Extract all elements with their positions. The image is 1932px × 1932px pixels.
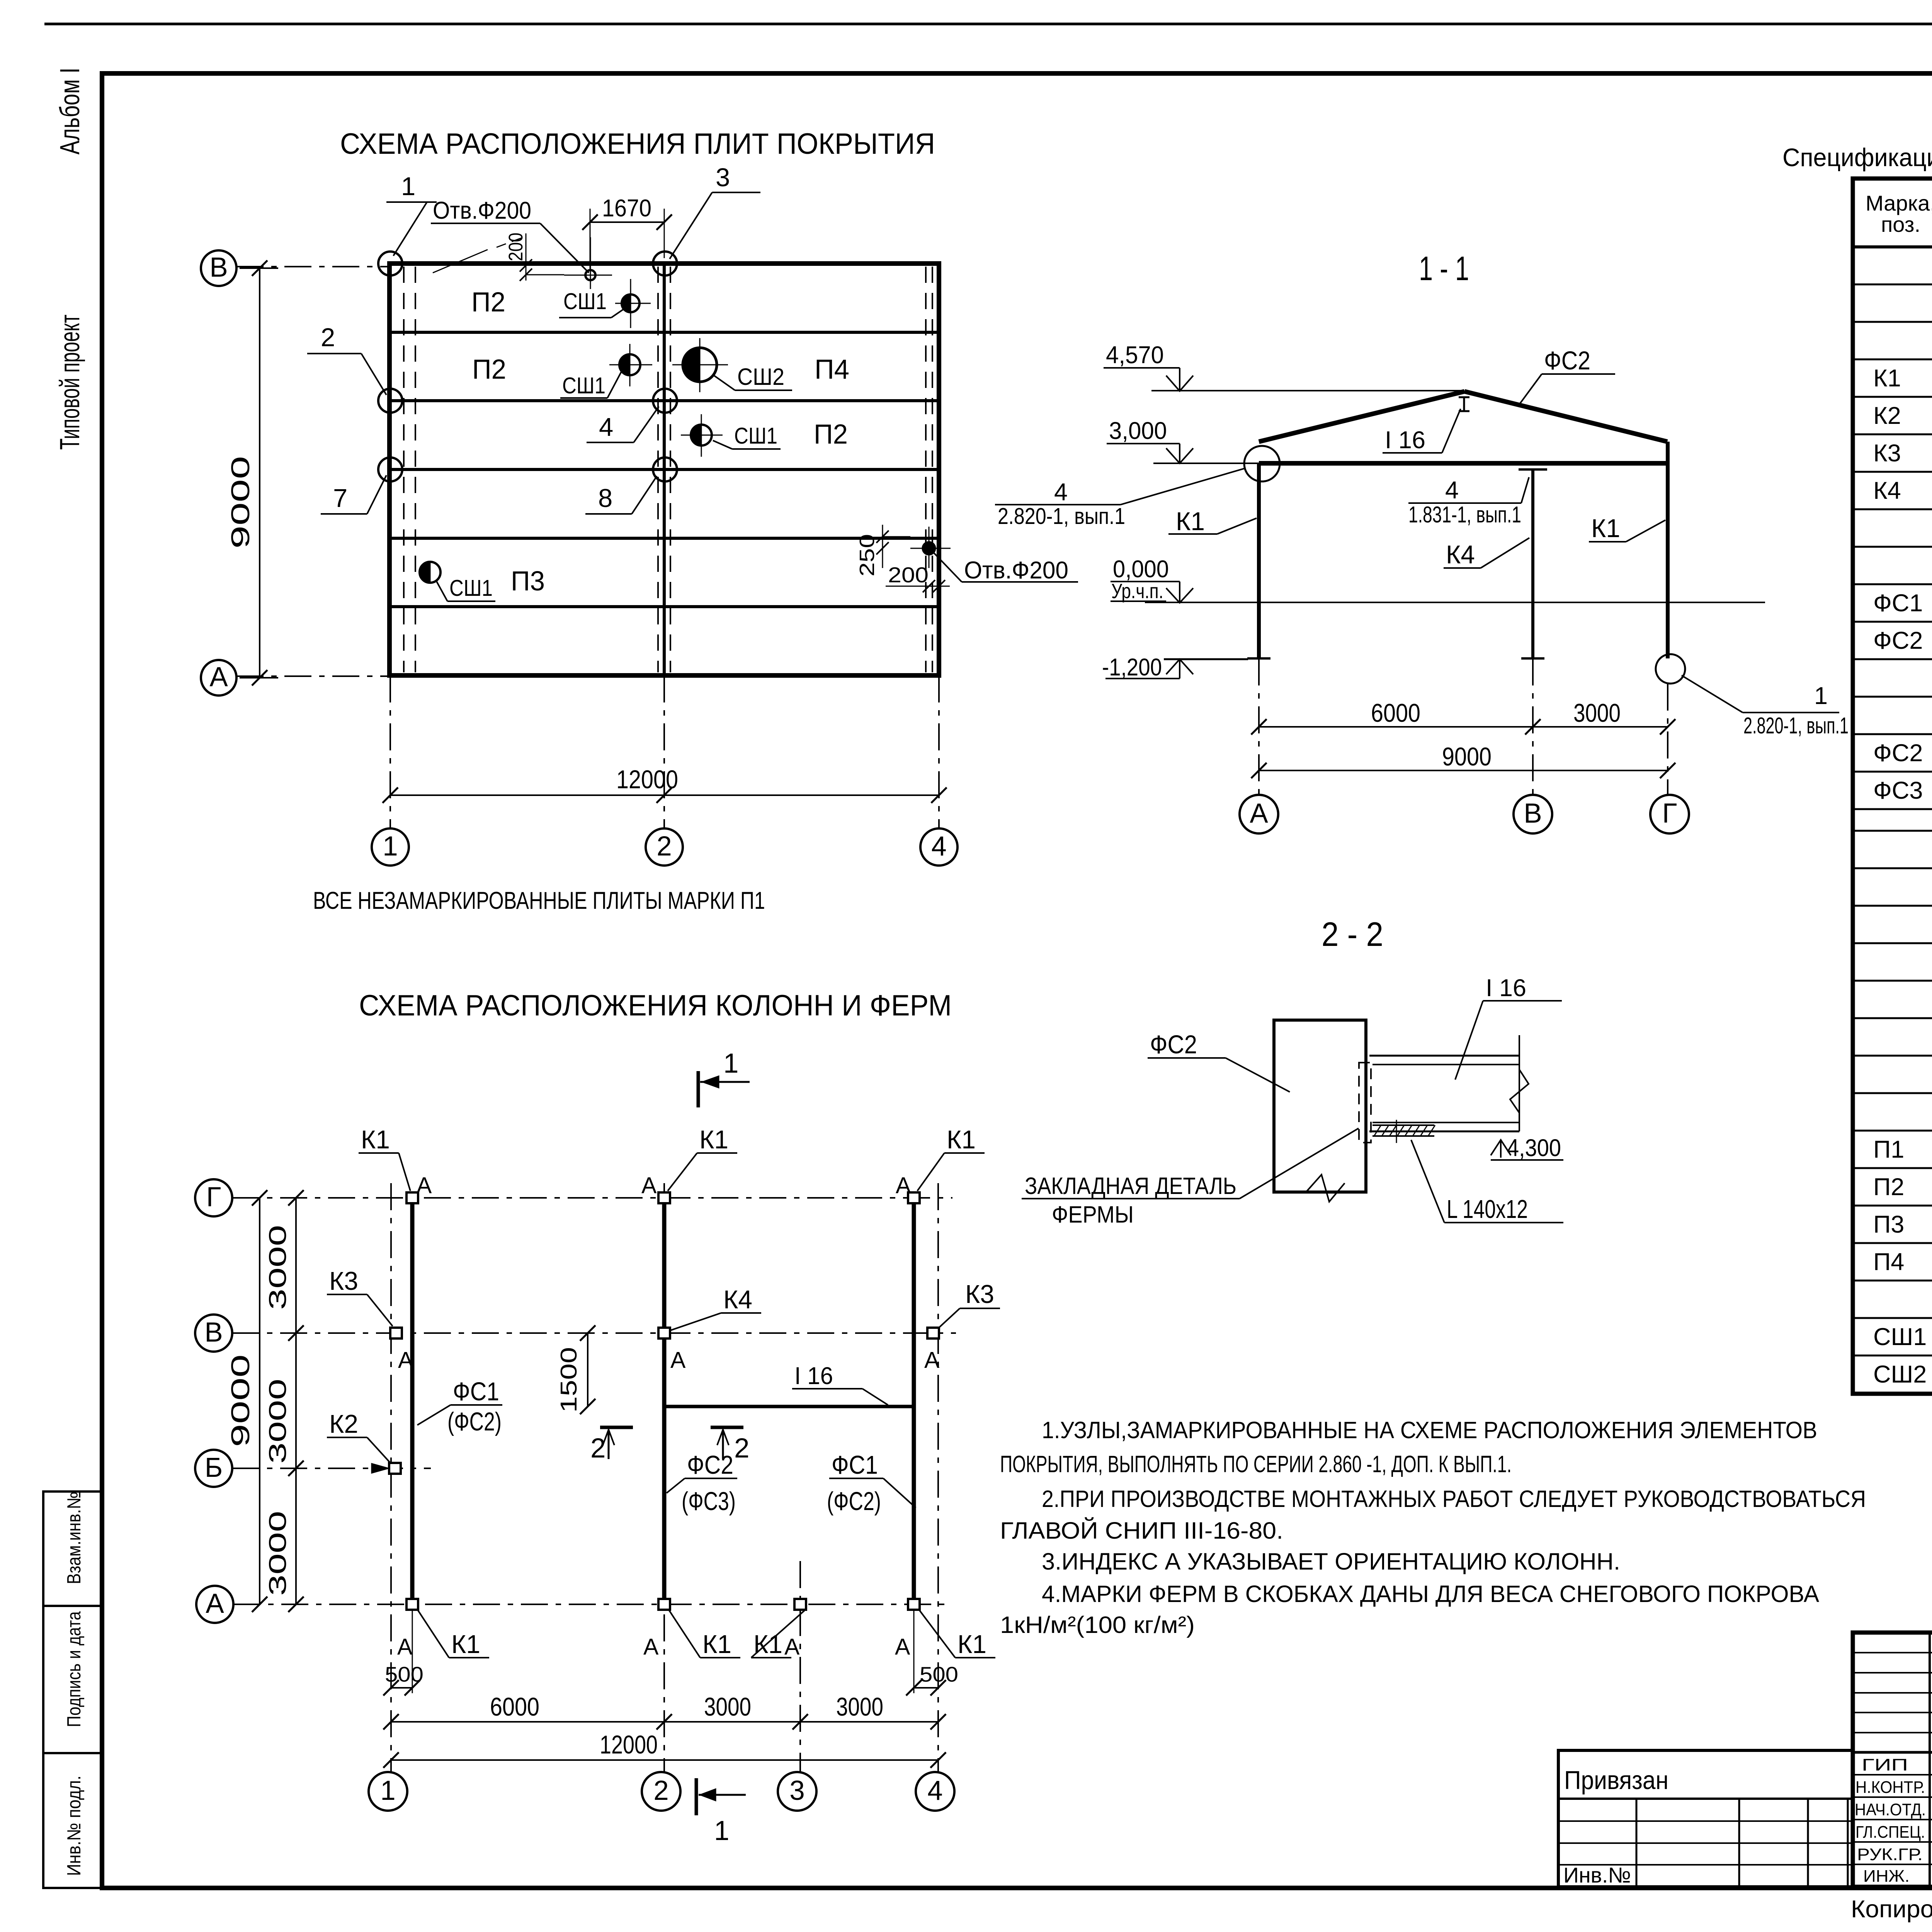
svg-text:7: 7 <box>333 484 347 513</box>
anchor СШ2 row2 <box>683 348 717 382</box>
axis В dash-dot line <box>236 266 389 267</box>
svg-text:Г: Г <box>1662 798 1677 829</box>
svg-text:1: 1 <box>380 1776 396 1806</box>
svg-text:НАЧ.ОТД.: НАЧ.ОТД. <box>1855 1800 1926 1819</box>
svg-text:12000: 12000 <box>600 1730 658 1759</box>
svg-text:А: А <box>924 1347 940 1373</box>
svg-text:Инв.№ подл.: Инв.№ подл. <box>64 1776 85 1876</box>
svg-text:ФС2: ФС2 <box>1150 1030 1197 1059</box>
svg-text:-1,200: -1,200 <box>1102 654 1162 681</box>
svg-text:К1: К1 <box>699 1125 728 1154</box>
svg-text:П3: П3 <box>511 566 545 597</box>
axis circle 2 plan1 <box>646 828 683 866</box>
truss ФС1 line axis4 <box>912 1197 916 1604</box>
svg-text:П2: П2 <box>1873 1173 1904 1201</box>
margin label Типовой проект <box>55 315 85 450</box>
svg-text:1500: 1500 <box>556 1347 582 1413</box>
svg-text:К2: К2 <box>329 1410 358 1439</box>
svg-text:А: А <box>397 1634 413 1660</box>
plan1 axis extension lines <box>389 675 391 828</box>
svg-text:А: А <box>398 1347 413 1373</box>
svg-text:I 16: I 16 <box>1486 975 1526 1002</box>
svg-text:СХЕМА РАСПОЛОЖЕНИЯ КОЛОНН И ФЕ: СХЕМА РАСПОЛОЖЕНИЯ КОЛОНН И ФЕРМ <box>359 989 952 1022</box>
dimension 3000 rows scheme2 <box>295 1198 297 1604</box>
svg-text:А: А <box>417 1173 432 1198</box>
section axis dash-dot lines <box>1258 658 1260 795</box>
svg-text:ФС2: ФС2 <box>1544 346 1590 375</box>
svg-text:3000: 3000 <box>704 1692 751 1721</box>
svg-text:СШ1: СШ1 <box>1873 1323 1927 1350</box>
svg-text:СШ2: СШ2 <box>737 364 784 390</box>
title block main horizontals <box>1853 1751 1932 1754</box>
svg-text:1: 1 <box>383 831 398 862</box>
node 7 circle <box>378 457 402 481</box>
svg-text:ЗАКЛАДНАЯ ДЕТАЛЬ: ЗАКЛАДНАЯ ДЕТАЛЬ <box>1025 1173 1236 1199</box>
svg-text:Типовой проект: Типовой проект <box>55 315 85 450</box>
column К3 at В-4 <box>927 1328 939 1338</box>
svg-text:2.820-1, вып.1: 2.820-1, вып.1 <box>998 503 1125 529</box>
svg-text:3: 3 <box>716 163 730 192</box>
svg-text:4: 4 <box>927 1776 943 1806</box>
anchor СШ1 row1 <box>622 294 639 312</box>
svg-text:Н.КОНТР.: Н.КОНТР. <box>1855 1778 1925 1797</box>
svg-text:Отв.Ф200: Отв.Ф200 <box>433 197 531 224</box>
svg-text:П2: П2 <box>814 419 848 450</box>
svg-text:Альбом I: Альбом I <box>55 68 85 155</box>
svg-text:СШ1: СШ1 <box>562 373 605 398</box>
anchor СШ1 row5 <box>420 562 440 583</box>
svg-text:В: В <box>1524 798 1542 829</box>
svg-text:В: В <box>209 252 228 283</box>
column К1 at Г-2 <box>658 1192 670 1203</box>
dimension 12000 scheme2 <box>391 1759 938 1761</box>
axis circle В section <box>1514 795 1552 833</box>
svg-text:К1: К1 <box>1591 514 1620 543</box>
svg-text:250: 250 <box>855 534 879 577</box>
svg-text:3000: 3000 <box>264 1511 291 1596</box>
column base ticks <box>1247 657 1270 660</box>
svg-text:А: А <box>896 1173 911 1198</box>
svg-text:П3: П3 <box>1873 1211 1904 1238</box>
svg-text:СШ1: СШ1 <box>563 289 607 314</box>
column К1 at А-2 <box>658 1599 670 1610</box>
hole Отв.Ф200 bottom right <box>923 542 935 554</box>
column К1 at Г-4 <box>908 1192 920 1203</box>
binding table Привязан <box>1558 1750 1853 1887</box>
column К3 at В-1 <box>390 1328 402 1338</box>
node 8 circle <box>653 457 677 481</box>
axis circle В plan1 <box>201 250 236 286</box>
svg-text:1кН/м²(100 кг/м²): 1кН/м²(100 кг/м²) <box>1000 1612 1195 1638</box>
dimension 1670 top <box>590 221 664 223</box>
truss ФС2 in section <box>1274 1020 1366 1192</box>
svg-text:К3: К3 <box>965 1280 994 1309</box>
margin label Альбом I <box>55 68 85 155</box>
svg-text:1: 1 <box>401 172 415 201</box>
svg-text:2.ПРИ ПРОИЗВОДСТВЕ МОНТАЖНЫ: 2.ПРИ ПРОИЗВОДСТВЕ МОНТАЖНЫХ РАБОТ СЛЕДУ… <box>1042 1486 1866 1512</box>
svg-text:К1: К1 <box>1176 507 1205 536</box>
svg-text:3000: 3000 <box>264 1379 291 1464</box>
ground line <box>1145 602 1765 603</box>
svg-text:ГЛАВОЙ СНИП III-16-80.: ГЛАВОЙ СНИП III-16-80. <box>1000 1517 1283 1544</box>
dimension 12000 plan1 <box>390 794 939 796</box>
svg-text:Г: Г <box>206 1182 221 1213</box>
svg-text:9000: 9000 <box>1442 742 1492 771</box>
elevation -1,200 <box>1164 658 1248 660</box>
svg-text:П2: П2 <box>471 287 505 318</box>
svg-text:Б: Б <box>205 1452 223 1483</box>
plan1 outline <box>389 264 939 675</box>
svg-text:I 16: I 16 <box>794 1362 833 1389</box>
svg-text:0,000: 0,000 <box>1113 556 1169 583</box>
dimension 9000 section <box>1259 770 1668 771</box>
svg-text:4: 4 <box>1054 479 1068 506</box>
axis В dash-dot scheme2 <box>232 1332 956 1334</box>
dimension 200 bottom right <box>886 586 950 587</box>
svg-text:1 - 1: 1 - 1 <box>1419 249 1469 287</box>
svg-text:Спецификация элементов к сх: Спецификация элементов к схемам располож… <box>1782 143 1932 172</box>
apex I16 symbol <box>1459 396 1469 398</box>
axis circle 4 scheme2 <box>916 1772 954 1811</box>
svg-text:L 140x12: L 140x12 <box>1447 1195 1528 1224</box>
svg-text:Взам.инв.№: Взам.инв.№ <box>64 1492 85 1584</box>
spec table header bottom <box>1853 245 1932 248</box>
svg-text:9000: 9000 <box>226 456 255 549</box>
svg-text:ФС1: ФС1 <box>453 1377 499 1406</box>
svg-text:Инв.№: Инв.№ <box>1563 1863 1631 1887</box>
node 4 circle <box>653 389 677 413</box>
column К4 at В-2 <box>658 1328 670 1338</box>
svg-text:К3: К3 <box>1873 440 1901 467</box>
axis Г dash-dot <box>232 1197 952 1199</box>
svg-text:200: 200 <box>505 233 527 261</box>
column К1 right <box>1666 442 1670 658</box>
svg-text:(ФС3): (ФС3) <box>682 1487 736 1516</box>
svg-text:2 - 2: 2 - 2 <box>1321 915 1383 953</box>
svg-text:К1: К1 <box>361 1125 390 1154</box>
svg-text:2.820-1, вып.1: 2.820-1, вып.1 <box>1743 713 1849 738</box>
axis circle 4 plan1 <box>920 828 957 866</box>
svg-text:А: А <box>670 1347 686 1373</box>
svg-text:2: 2 <box>734 1433 750 1464</box>
anchor СШ1 row3 <box>691 425 712 446</box>
title block vertical lines <box>1929 1633 1931 1887</box>
dimension 1500 <box>587 1333 588 1406</box>
svg-text:К4: К4 <box>723 1285 752 1314</box>
dimension 500 right <box>914 1687 938 1689</box>
svg-text:К1: К1 <box>451 1630 480 1659</box>
svg-text:ФС3: ФС3 <box>1873 777 1923 804</box>
dimension 500 left <box>391 1687 412 1689</box>
truss ФС1 line axis1 <box>410 1197 415 1604</box>
svg-text:(ФС2): (ФС2) <box>447 1407 502 1436</box>
svg-text:500: 500 <box>385 1662 423 1686</box>
svg-text:К1: К1 <box>947 1125 976 1154</box>
svg-text:поз.: поз. <box>1881 212 1920 236</box>
svg-text:3000: 3000 <box>1573 699 1621 728</box>
axis А dash-dot scheme2 <box>233 1604 951 1605</box>
plan1 plate joint rows <box>389 331 939 334</box>
svg-text:ФС2: ФС2 <box>1873 740 1923 767</box>
axis Б dash-dot <box>232 1468 431 1469</box>
plan1 right dashed plate edges <box>925 267 927 672</box>
svg-text:2: 2 <box>590 1433 606 1464</box>
svg-text:2: 2 <box>653 1776 669 1806</box>
margin box Взам.инв.№ <box>43 1492 102 1606</box>
svg-text:Копировал Ящук: Копировал Ящук <box>1851 1896 1932 1923</box>
section mark 2 left <box>600 1426 633 1429</box>
axis circle Г <box>195 1179 232 1216</box>
svg-text:К4: К4 <box>1873 477 1901 504</box>
svg-text:8: 8 <box>598 484 612 513</box>
title block signature rows <box>1853 1774 1932 1776</box>
svg-text:1: 1 <box>714 1816 730 1846</box>
axis circle В scheme2 <box>195 1315 232 1352</box>
dimension 9000 scheme2 <box>259 1198 260 1604</box>
svg-text:В: В <box>204 1317 223 1348</box>
margin box Инв.№ подл. <box>43 1753 102 1888</box>
svg-text:3,000: 3,000 <box>1109 417 1167 444</box>
plan1 cut marks near node 1 <box>433 250 488 273</box>
axis circle Г section <box>1650 795 1689 833</box>
svg-text:1: 1 <box>723 1048 739 1079</box>
section mark 1 bottom <box>695 1778 698 1815</box>
svg-text:200: 200 <box>888 563 929 587</box>
anchor СШ1 row2 <box>619 354 640 375</box>
svg-text:4.МАРКИ ФЕРМ В СКОБКАХ ДАН: 4.МАРКИ ФЕРМ В СКОБКАХ ДАНЫ ДЛЯ ВЕСА СНЕ… <box>1042 1581 1819 1607</box>
dimension 250 bottom right <box>882 525 883 568</box>
column К1 at А-3 <box>794 1599 806 1610</box>
svg-text:П4: П4 <box>815 354 849 385</box>
svg-text:2: 2 <box>656 831 672 862</box>
svg-text:П4: П4 <box>1873 1248 1904 1276</box>
dimension 200 vertical top <box>526 233 527 281</box>
svg-text:1670: 1670 <box>602 195 651 222</box>
column К1 at Г-1 <box>406 1192 418 1203</box>
svg-text:3.ИНДЕКС А УКАЗЫВАЕТ ОРИЕНТ: 3.ИНДЕКС А УКАЗЫВАЕТ ОРИЕНТАЦИЮ КОЛОНН. <box>1042 1548 1620 1575</box>
svg-text:6000: 6000 <box>1371 699 1420 728</box>
axis circle 1 scheme2 <box>369 1772 407 1811</box>
node 1 circle <box>378 252 402 276</box>
svg-text:(ФС2): (ФС2) <box>827 1487 881 1516</box>
axis 4 dash-dot vertical <box>937 1183 939 1772</box>
weld hatch <box>1374 1125 1381 1136</box>
node 2 circle <box>378 389 402 413</box>
axis circle 3 scheme2 <box>778 1772 816 1811</box>
svg-text:Ур.ч.п.: Ур.ч.п. <box>1111 580 1163 603</box>
svg-text:К1: К1 <box>702 1630 731 1659</box>
section mark 2 right <box>711 1426 743 1429</box>
column К1 at А-1 <box>406 1599 418 1610</box>
svg-text:А: А <box>1250 798 1268 829</box>
svg-text:РУК.ГР.: РУК.ГР. <box>1857 1845 1923 1864</box>
svg-text:СХЕМА РАСПОЛОЖЕНИЯ ПЛИТ ПОКРЫТ: СХЕМА РАСПОЛОЖЕНИЯ ПЛИТ ПОКРЫТИЯ <box>340 128 935 160</box>
truss ФС2 line axis2 <box>662 1197 667 1604</box>
column К2 at Б-1 <box>389 1463 401 1474</box>
title block outline <box>1853 1633 1932 1887</box>
spec table row lines <box>1853 284 1932 286</box>
axis circle 1 plan1 <box>372 828 409 866</box>
svg-text:ФС1: ФС1 <box>1873 590 1923 617</box>
dimension 6000 section <box>1259 726 1668 728</box>
svg-text:1: 1 <box>1814 682 1828 709</box>
axis 2 dash-dot vertical <box>663 1183 665 1772</box>
svg-text:ФС2: ФС2 <box>1873 627 1923 654</box>
axis circle А plan1 <box>201 660 236 696</box>
svg-text:ФС1: ФС1 <box>832 1451 878 1480</box>
axis circle 2 scheme2 <box>642 1772 680 1811</box>
svg-text:Отв.Ф200: Отв.Ф200 <box>964 557 1068 584</box>
axis circle А section <box>1240 795 1278 833</box>
svg-text:Привязан: Привязан <box>1564 1766 1668 1795</box>
embedded plate dashed <box>1359 1063 1371 1143</box>
plan1 middle ridge line axis 2 <box>663 264 666 675</box>
svg-text:1.УЗЛЫ,ЗАМАРКИРОВАННЫЕ НА СХ: 1.УЗЛЫ,ЗАМАРКИРОВАННЫЕ НА СХЕМЕ РАСПОЛОЖ… <box>1042 1417 1817 1443</box>
dimension 9000 vertical plan1 <box>259 268 260 678</box>
svg-text:ГИП: ГИП <box>1862 1755 1908 1774</box>
plan1 middle dashed plate edges <box>657 267 659 672</box>
svg-text:А: А <box>206 1588 224 1619</box>
svg-text:П1: П1 <box>1873 1136 1904 1163</box>
svg-text:ВСЕ НЕЗАМАРКИРОВАННЫЕ ПЛИТЫ МА: ВСЕ НЕЗАМАРКИРОВАННЫЕ ПЛИТЫ МАРКИ П1 <box>313 887 765 914</box>
eave beam line <box>1259 461 1667 466</box>
svg-text:К2: К2 <box>1873 402 1901 429</box>
axis circle А scheme2 <box>196 1586 233 1623</box>
svg-text:А: А <box>784 1634 800 1660</box>
svg-text:П2: П2 <box>472 354 506 385</box>
svg-text:А: А <box>643 1634 659 1660</box>
spec table outline <box>1853 179 1932 1394</box>
svg-text:I 16: I 16 <box>1385 427 1425 454</box>
svg-text:3000: 3000 <box>264 1225 291 1310</box>
svg-text:3000: 3000 <box>836 1692 883 1721</box>
svg-text:А: А <box>895 1634 910 1660</box>
hole Отв.Ф200 top <box>585 270 595 280</box>
svg-text:6000: 6000 <box>490 1692 539 1721</box>
column К1 at А-4 <box>908 1599 920 1610</box>
beam I16 in section <box>1369 1055 1519 1057</box>
svg-text:А: А <box>209 662 228 692</box>
svg-text:ФЕРМЫ: ФЕРМЫ <box>1052 1201 1134 1228</box>
weld cross mark <box>1396 1120 1397 1143</box>
svg-text:ПОКРЫТИЯ, ВЫПОЛНЯТЬ ПО СЕРИИ: ПОКРЫТИЯ, ВЫПОЛНЯТЬ ПО СЕРИИ 2.860 -1, Д… <box>1000 1451 1512 1477</box>
svg-text:А: А <box>641 1173 657 1198</box>
svg-text:3: 3 <box>789 1776 805 1806</box>
svg-text:4,300: 4,300 <box>1507 1134 1561 1162</box>
svg-text:4: 4 <box>1445 477 1459 504</box>
axis А dash-dot line <box>236 675 389 677</box>
svg-text:4: 4 <box>931 831 947 862</box>
svg-text:2: 2 <box>321 323 335 352</box>
beam break line <box>1510 1070 1529 1113</box>
axis 3 dash-dot vertical <box>799 1561 801 1772</box>
svg-text:ГЛ.СПЕЦ.: ГЛ.СПЕЦ. <box>1855 1823 1925 1842</box>
svg-text:К1: К1 <box>957 1630 986 1659</box>
dimension 6000 3000 3000 scheme2 <box>391 1721 938 1723</box>
column К4 middle <box>1531 469 1534 658</box>
roof slope lines <box>1259 391 1464 442</box>
column К1 left <box>1257 463 1261 658</box>
svg-text:ИНЖ.: ИНЖ. <box>1863 1867 1910 1886</box>
svg-text:ФС2: ФС2 <box>687 1451 733 1480</box>
svg-text:СШ1: СШ1 <box>449 575 493 601</box>
node 3 circle <box>653 252 677 276</box>
level line 4,570 <box>1151 390 1464 391</box>
svg-text:500: 500 <box>920 1662 958 1686</box>
svg-text:К3: К3 <box>329 1267 358 1296</box>
beam I16 plan line <box>664 1405 914 1408</box>
svg-text:К1: К1 <box>1873 365 1901 392</box>
node circle right base <box>1656 654 1685 684</box>
page top scan line <box>44 23 1932 26</box>
axis circle Б <box>195 1450 232 1487</box>
svg-text:К4: К4 <box>1446 540 1475 569</box>
svg-text:4: 4 <box>599 413 613 442</box>
section mark 1 top <box>697 1071 700 1107</box>
svg-text:4,570: 4,570 <box>1106 342 1164 369</box>
svg-text:Подпись и дата: Подпись и дата <box>64 1611 85 1727</box>
svg-text:12000: 12000 <box>616 765 678 794</box>
plan1 left dashed plate edges <box>403 267 405 672</box>
svg-text:Марка,: Марка, <box>1866 191 1932 215</box>
svg-text:1.831-1, вып.1: 1.831-1, вып.1 <box>1408 502 1521 527</box>
elevation 4,300 <box>1491 1140 1511 1155</box>
margin box Подпись и дата <box>43 1606 102 1753</box>
svg-text:СШ2: СШ2 <box>1873 1361 1927 1388</box>
svg-text:СШ1: СШ1 <box>734 423 777 449</box>
title block small rows <box>1853 1652 1932 1653</box>
node circle left eave <box>1244 446 1280 481</box>
svg-text:9000: 9000 <box>226 1354 255 1447</box>
axis 1 dash-dot vertical <box>390 1183 392 1772</box>
